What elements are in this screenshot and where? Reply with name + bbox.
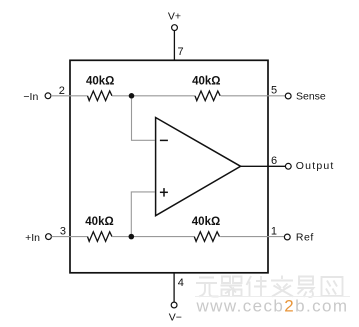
terminal Ref [284,234,290,240]
wire node B to op-amp non-inverting input [131,192,155,234]
svg-text:40kΩ: 40kΩ [192,216,220,228]
svg-text:4: 4 [178,277,184,289]
watermark underline [195,296,350,298]
wire op-amp output to Output terminal [241,165,286,167]
glyph wang [322,277,343,296]
svg-text:V+: V+ [168,11,181,23]
svg-text:7: 7 [178,46,184,58]
wire +In to R3 [51,236,87,238]
wire R3 to node B [112,236,194,238]
glyph jian [247,276,267,297]
svg-text:+In: +In [25,232,40,244]
wire node A to op-amp inverting input [132,99,155,141]
glyph jiao [271,276,293,297]
wire R4 to Ref terminal [220,236,284,238]
svg-text:6: 6 [271,155,277,167]
terminal Sense [285,93,291,99]
svg-text:40kΩ: 40kΩ [86,76,114,88]
svg-text:Output: Output [296,160,335,172]
resistor R2 40kOhm [195,91,220,101]
svg-text:5: 5 [271,85,277,97]
terminal +In [46,234,52,240]
svg-text:−In: −In [23,91,38,103]
node A junction dot [129,93,135,99]
terminal Output [285,163,291,169]
node B junction dot [129,234,135,240]
glyph yi [298,277,314,298]
terminal V+ [172,25,178,31]
plus symbol non-inverting input [160,191,168,193]
wire R2 to Sense terminal [221,95,285,97]
resistor R3 40kOhm [88,232,112,242]
svg-text:3: 3 [60,226,66,238]
terminal V- [171,302,177,308]
svg-text:2: 2 [59,85,65,97]
wire -In to R1 [51,95,88,97]
IC outline box U1 [70,60,268,272]
svg-text:1: 1 [271,225,277,237]
svg-text:V−: V− [169,312,182,324]
resistor R1 40kOhm [88,91,112,101]
wire box to V- terminal [173,273,175,302]
svg-text:www.cecb2b.com: www.cecb2b.com [196,297,349,316]
svg-text:Sense: Sense [296,90,326,102]
glyph yuan [196,278,219,297]
op-amp A1 triangle [156,118,241,216]
wire R1 to node A [112,95,195,97]
wire V+ to box [173,31,175,61]
minus symbol inverting input [160,139,168,141]
terminal -In [45,93,51,99]
watermark CJK glyphs (approximation) [196,276,343,298]
resistor R4 40kOhm [194,232,219,242]
svg-text:40kΩ: 40kΩ [192,76,220,88]
svg-text:Ref: Ref [296,232,314,244]
glyph qi [221,277,243,297]
svg-text:40kΩ: 40kΩ [85,216,113,228]
